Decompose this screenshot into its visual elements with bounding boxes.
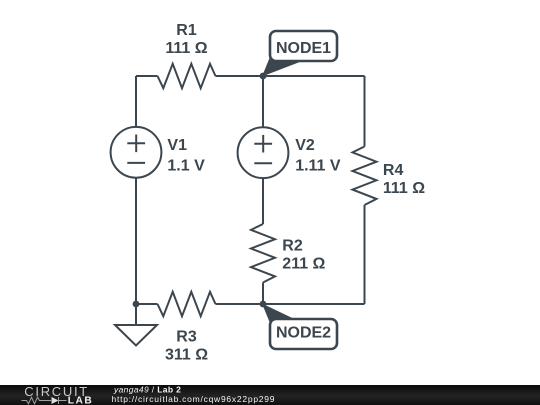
svg-text:NODE1: NODE1 — [276, 40, 331, 57]
NODE2 callout box — [270, 319, 337, 349]
V1 plus sign — [127, 135, 145, 153]
wire: V2 negative terminal down to R2 top terminal — [262, 178, 264, 224]
svg-text:111 Ω: 111 Ω — [383, 180, 425, 197]
NODE1 callout box — [270, 31, 337, 61]
footer black bar — [0, 385, 540, 405]
resistor R1 zigzag body — [158, 64, 216, 88]
V2 minus sign — [254, 162, 272, 164]
NODE2 callout pointer wedge — [262, 304, 298, 323]
NODE1 callout pointer wedge — [262, 58, 303, 77]
svg-text:R2: R2 — [282, 238, 303, 255]
svg-text:111 Ω: 111 Ω — [165, 40, 207, 57]
svg-text:311 Ω: 311 Ω — [165, 347, 208, 364]
voltage source V1 circle — [111, 127, 162, 178]
wire: top-left corner to R1 left terminal — [136, 75, 158, 77]
svg-text:NODE2: NODE2 — [276, 324, 331, 341]
svg-text:LAB: LAB — [68, 396, 93, 405]
wire: NODE1 to top-right corner — [263, 75, 365, 77]
svg-text:V2: V2 — [295, 137, 315, 154]
svg-text:R1: R1 — [176, 22, 197, 39]
svg-text:http://circuitlab.com/cqw96x22: http://circuitlab.com/cqw96x22pp299 — [112, 394, 276, 404]
ground junction dot — [133, 301, 140, 308]
resistor R4 zigzag body — [353, 147, 377, 206]
wire: bottom-right corner to node NODE2 — [263, 303, 365, 305]
node NODE2 junction dot — [260, 301, 267, 308]
wire: NODE2 to R3 right terminal — [216, 303, 264, 305]
resistor R3 zigzag body — [158, 292, 216, 316]
V1 minus sign — [127, 162, 145, 164]
svg-text:211 Ω: 211 Ω — [282, 256, 325, 273]
svg-text:1.11 V: 1.11 V — [295, 157, 341, 174]
ground symbol triangle — [115, 325, 157, 346]
wire: R2 bottom terminal to node NODE2 — [262, 283, 264, 305]
wire: NODE1 down to V2 positive terminal — [262, 76, 264, 127]
node NODE1 junction dot — [260, 73, 267, 80]
wire: R1 right terminal to node NODE1 — [216, 75, 264, 77]
wire: V1 negative terminal down to ground junction — [135, 178, 137, 304]
CircuitLab logo resistor squiggle and diode — [22, 397, 67, 404]
wire: R3 left terminal to ground junction — [136, 303, 158, 305]
wire: R4 bottom terminal to bottom-right corner — [364, 205, 366, 304]
wire: junction stub down to ground symbol — [135, 304, 137, 325]
svg-text:V1: V1 — [167, 137, 187, 154]
resistor R2 zigzag body — [251, 224, 275, 283]
svg-text:R4: R4 — [383, 162, 404, 179]
svg-text:1.1 V: 1.1 V — [167, 157, 205, 174]
wire: left rail from top corner to V1 positive terminal — [135, 76, 137, 127]
wire: top-right corner down to R4 top terminal — [364, 76, 366, 147]
V2 plus sign — [254, 135, 272, 153]
svg-text:R3: R3 — [176, 329, 197, 346]
voltage source V2 circle — [238, 127, 289, 178]
